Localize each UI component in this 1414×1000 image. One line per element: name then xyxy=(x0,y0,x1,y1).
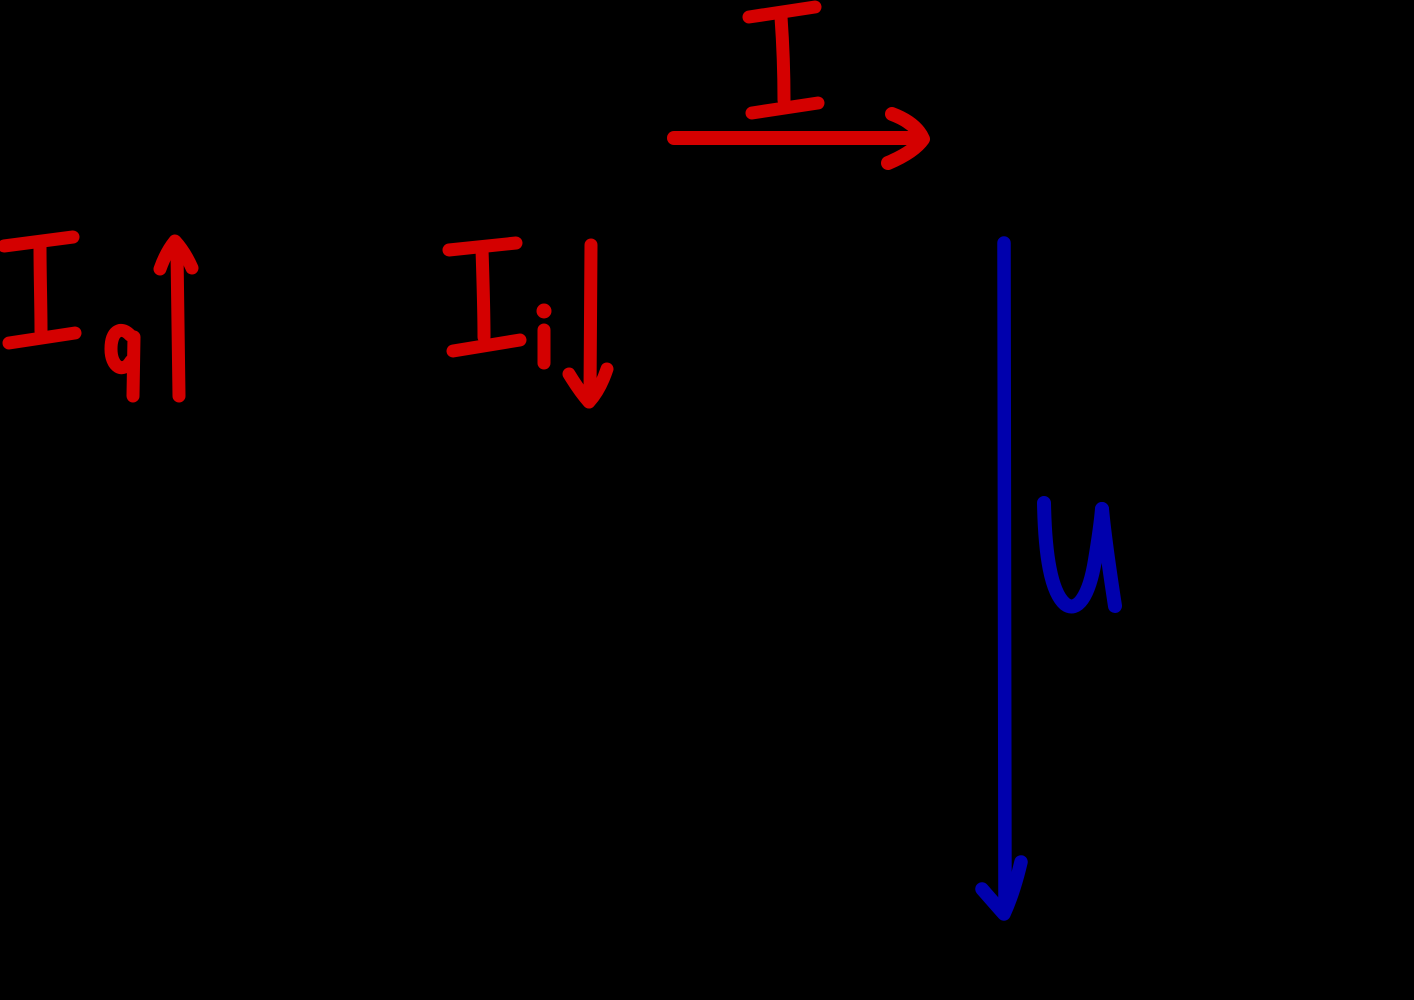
arrow for current I pointing right xyxy=(674,114,923,163)
dot of i subscript xyxy=(537,304,552,319)
label Iq (source current), red handwritten I with q subscript xyxy=(4,237,134,396)
arrow for Iq pointing up xyxy=(160,241,192,396)
arrow for Ii pointing down xyxy=(569,245,607,402)
label I (total current), red handwritten capital I above arrow xyxy=(749,7,818,113)
label U (voltage), blue handwritten letter U xyxy=(1044,503,1115,606)
arrow for voltage U pointing down (blue) xyxy=(982,243,1021,914)
label Ii (internal current), red handwritten I with i subscript xyxy=(449,243,544,363)
